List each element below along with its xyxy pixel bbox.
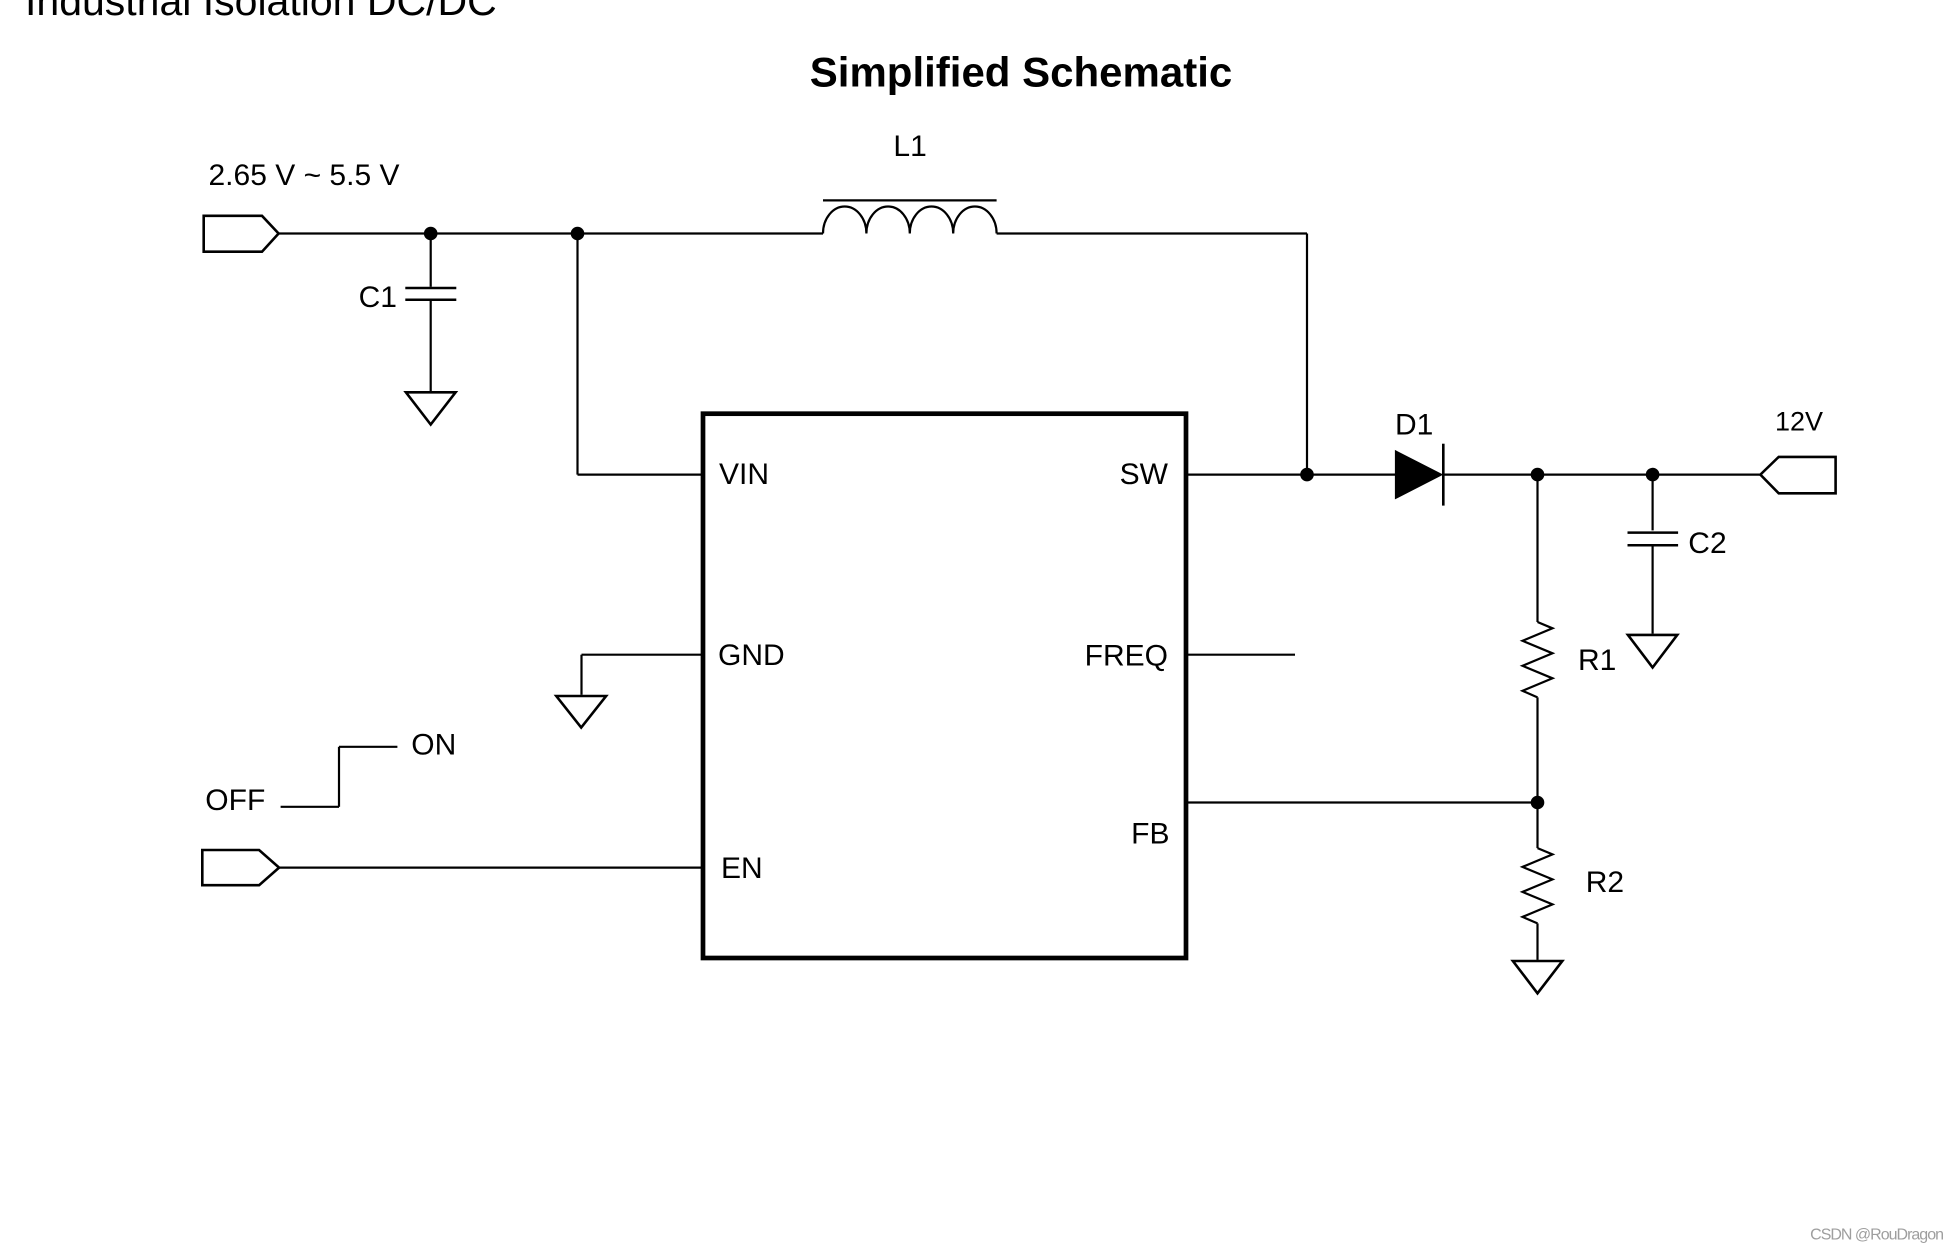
svg-text:12V: 12V (1775, 407, 1823, 437)
svg-text:EN: EN (721, 852, 763, 885)
svg-text:C1: C1 (359, 281, 397, 314)
svg-text:Industrial Isolation DC/DC: Industrial Isolation DC/DC (25, 0, 497, 24)
svg-text:L1: L1 (893, 130, 926, 163)
svg-text:VIN: VIN (719, 458, 769, 491)
svg-text:FB: FB (1131, 818, 1169, 851)
svg-text:2.65 V ~ 5.5 V: 2.65 V ~ 5.5 V (209, 159, 400, 192)
svg-text:SW: SW (1120, 458, 1169, 491)
svg-text:ON: ON (411, 729, 456, 762)
svg-text:OFF: OFF (205, 784, 265, 817)
svg-text:GND: GND (718, 639, 785, 672)
svg-text:Simplified Schematic: Simplified Schematic (810, 49, 1232, 96)
svg-text:C2: C2 (1688, 527, 1726, 560)
svg-text:CSDN @RouDragon: CSDN @RouDragon (1810, 1227, 1943, 1244)
svg-text:R2: R2 (1586, 866, 1624, 899)
svg-text:D1: D1 (1395, 409, 1433, 442)
svg-text:R1: R1 (1578, 644, 1616, 677)
svg-text:FREQ: FREQ (1085, 640, 1168, 673)
